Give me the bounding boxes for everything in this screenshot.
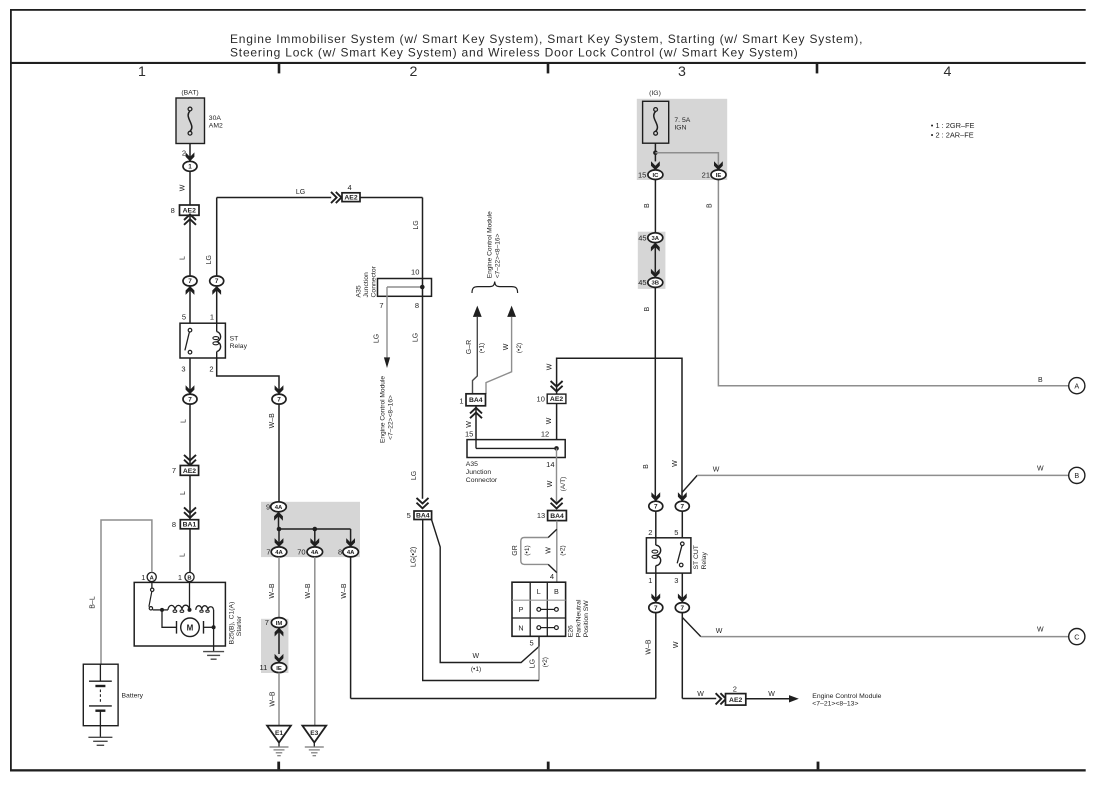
svg-text:1: 1	[141, 573, 145, 582]
svg-text:W: W	[1037, 627, 1044, 634]
svg-text:7. 5A: 7. 5A	[674, 117, 690, 124]
svg-text:B: B	[554, 587, 559, 596]
svg-text:G–R: G–R	[466, 340, 473, 354]
svg-text:4: 4	[944, 64, 952, 80]
svg-text:(IG): (IG)	[649, 90, 661, 97]
svg-text:(BAT): (BAT)	[181, 90, 198, 97]
svg-text:Engine Control Module: Engine Control Module	[812, 693, 881, 700]
svg-text:W: W	[697, 691, 704, 698]
svg-text:IE: IE	[276, 666, 282, 672]
svg-text:Engine Control Module: Engine Control Module	[486, 211, 493, 278]
svg-text:8: 8	[171, 206, 175, 215]
svg-text:E1: E1	[275, 730, 283, 737]
svg-text:Engine Control Module: Engine Control Module	[380, 376, 387, 443]
svg-text:3: 3	[678, 64, 686, 80]
svg-text:IC: IC	[652, 173, 659, 179]
svg-text:8: 8	[415, 301, 419, 310]
svg-text:B25(B), C1(A): B25(B), C1(A)	[229, 602, 236, 645]
svg-text:2: 2	[733, 684, 737, 693]
svg-text:5: 5	[182, 313, 186, 322]
svg-text:W: W	[546, 363, 553, 370]
svg-text:A: A	[1074, 382, 1079, 391]
svg-text:4A: 4A	[347, 550, 355, 556]
svg-text:W: W	[472, 653, 479, 660]
svg-text:1: 1	[459, 396, 463, 405]
svg-text:5: 5	[674, 528, 678, 537]
svg-text:1: 1	[138, 64, 146, 80]
svg-text:A35: A35	[355, 285, 362, 297]
svg-text:7: 7	[654, 605, 658, 612]
svg-text:AE2: AE2	[183, 468, 196, 475]
svg-text:4A: 4A	[311, 550, 319, 556]
svg-text:7: 7	[188, 278, 192, 285]
svg-text:• 1 : 2GR–FE: • 1 : 2GR–FE	[931, 121, 975, 130]
svg-text:<7–21><8–13>: <7–21><8–13>	[812, 701, 858, 708]
svg-text:2: 2	[209, 364, 213, 373]
svg-text:(•2): (•2)	[542, 657, 549, 667]
svg-text:GR: GR	[512, 545, 519, 556]
svg-text:W: W	[503, 343, 510, 350]
svg-text:Engine Immobiliser System (w/: Engine Immobiliser System (w/ Smart Key …	[230, 32, 863, 46]
svg-text:3A: 3A	[652, 236, 660, 242]
svg-text:W–B: W–B	[269, 583, 276, 599]
svg-text:IE: IE	[716, 173, 722, 179]
svg-text:LG: LG	[530, 659, 537, 668]
svg-text:W–B: W–B	[270, 691, 277, 707]
svg-text:ST CUT: ST CUT	[693, 545, 700, 569]
svg-text:LG: LG	[413, 220, 420, 229]
svg-text:4A: 4A	[275, 550, 283, 556]
svg-text:21: 21	[702, 171, 710, 180]
svg-text:8: 8	[338, 548, 342, 557]
svg-text:Connector: Connector	[466, 477, 498, 484]
svg-text:W: W	[768, 691, 775, 698]
svg-text:AE2: AE2	[550, 396, 563, 403]
svg-text:B: B	[644, 203, 651, 208]
svg-text:7: 7	[266, 548, 270, 557]
svg-text:2: 2	[648, 528, 652, 537]
svg-text:W–B: W–B	[269, 413, 276, 429]
svg-text:12: 12	[541, 430, 549, 439]
svg-text:LG: LG	[206, 255, 213, 264]
svg-text:2: 2	[182, 148, 186, 157]
svg-text:(•1): (•1)	[524, 545, 531, 555]
svg-text:7: 7	[172, 466, 176, 475]
svg-text:W: W	[1037, 465, 1044, 472]
svg-text:W: W	[546, 417, 553, 424]
svg-text:B: B	[1074, 471, 1079, 480]
svg-text:3: 3	[674, 576, 678, 585]
svg-text:P: P	[519, 605, 524, 614]
svg-text:B: B	[1038, 377, 1043, 384]
svg-text:W: W	[713, 466, 720, 473]
svg-text:LG(•2): LG(•2)	[411, 547, 418, 567]
svg-text:W: W	[716, 628, 723, 635]
svg-text:45: 45	[638, 233, 646, 242]
svg-text:B: B	[644, 307, 651, 312]
svg-text:W: W	[545, 547, 552, 554]
svg-text:N: N	[518, 623, 523, 632]
svg-text:(A/T): (A/T)	[560, 477, 567, 492]
svg-text:AE2: AE2	[344, 195, 357, 202]
svg-text:7: 7	[681, 605, 685, 612]
svg-text:7: 7	[215, 278, 219, 285]
svg-text:E26: E26	[567, 625, 574, 637]
svg-text:1: 1	[210, 313, 214, 322]
svg-text:Connector: Connector	[370, 265, 377, 297]
svg-text:W–B: W–B	[645, 639, 652, 655]
svg-text:1: 1	[178, 573, 182, 582]
svg-text:B: B	[643, 464, 650, 469]
svg-text:IGN: IGN	[674, 125, 686, 132]
svg-text:W–B: W–B	[341, 583, 348, 599]
svg-text:70: 70	[297, 548, 305, 557]
svg-text:1: 1	[188, 164, 192, 171]
svg-text:A35: A35	[466, 461, 478, 468]
svg-text:M: M	[187, 623, 194, 632]
svg-text:13: 13	[537, 511, 545, 520]
svg-text:Junction: Junction	[466, 469, 492, 476]
svg-text:7: 7	[277, 396, 281, 403]
svg-text:LG: LG	[411, 471, 418, 480]
svg-text:11: 11	[260, 663, 268, 672]
svg-text:LG: LG	[413, 333, 420, 342]
svg-text:AM2: AM2	[209, 123, 223, 130]
svg-text:W: W	[672, 460, 679, 467]
svg-text:AE2: AE2	[183, 208, 196, 215]
svg-text:W–B: W–B	[305, 583, 312, 599]
svg-text:5: 5	[530, 638, 534, 647]
svg-text:Battery: Battery	[122, 693, 144, 700]
svg-text:B: B	[187, 575, 191, 581]
svg-text:45: 45	[638, 278, 646, 287]
svg-text:Position SW: Position SW	[583, 600, 590, 638]
svg-text:• 2 : 2AR–FE: • 2 : 2AR–FE	[931, 131, 974, 140]
svg-text:W: W	[466, 421, 473, 428]
svg-text:7: 7	[379, 301, 383, 310]
svg-text:E3: E3	[310, 730, 318, 737]
svg-text:(•1): (•1)	[471, 666, 481, 673]
svg-text:L: L	[537, 587, 541, 596]
svg-text:3: 3	[181, 364, 185, 373]
svg-text:10: 10	[537, 395, 545, 404]
svg-text:IM: IM	[276, 621, 283, 627]
svg-text:5: 5	[407, 511, 411, 520]
svg-text:1: 1	[648, 576, 652, 585]
svg-text:ST: ST	[230, 335, 239, 342]
svg-text:15: 15	[638, 171, 646, 180]
svg-text:Park/Neutral: Park/Neutral	[575, 599, 582, 637]
svg-text:2: 2	[410, 64, 418, 80]
svg-text:8: 8	[172, 520, 176, 529]
svg-text:B–L: B–L	[89, 596, 96, 609]
svg-text:L: L	[180, 419, 187, 423]
svg-text:W: W	[673, 641, 680, 648]
svg-text:7: 7	[681, 503, 685, 510]
svg-text:BA4: BA4	[416, 513, 430, 520]
svg-text:30A: 30A	[209, 115, 222, 122]
svg-text:7: 7	[654, 503, 658, 510]
svg-text:BA4: BA4	[469, 397, 483, 404]
svg-text:Steering Lock (w/ Smart Key Sy: Steering Lock (w/ Smart Key System) and …	[230, 45, 799, 59]
svg-text:(•2): (•2)	[516, 343, 523, 353]
svg-text:14: 14	[546, 460, 554, 469]
svg-text:L: L	[179, 553, 186, 557]
svg-text:<7–22><8–16>: <7–22><8–16>	[495, 233, 502, 278]
svg-text:4A: 4A	[275, 505, 283, 511]
svg-text:AE2: AE2	[729, 697, 742, 704]
svg-text:B: B	[707, 203, 714, 208]
svg-text:L: L	[180, 256, 187, 260]
svg-text:3B: 3B	[652, 281, 660, 287]
svg-text:<7–22><8–16>: <7–22><8–16>	[388, 395, 395, 440]
svg-text:LG: LG	[296, 189, 305, 196]
svg-text:LG: LG	[373, 334, 380, 343]
svg-text:BA1: BA1	[183, 522, 197, 529]
svg-text:L: L	[180, 491, 187, 495]
svg-text:4: 4	[550, 572, 554, 581]
svg-text:7: 7	[188, 396, 192, 403]
svg-text:Relay: Relay	[230, 343, 248, 350]
svg-text:7: 7	[265, 618, 269, 627]
svg-text:15: 15	[465, 430, 473, 439]
svg-text:Junction: Junction	[363, 272, 370, 298]
svg-text:Relay: Relay	[701, 552, 708, 570]
svg-text:(•1): (•1)	[478, 343, 485, 353]
svg-text:4: 4	[348, 183, 352, 192]
svg-text:W: W	[180, 184, 187, 191]
svg-text:10: 10	[411, 268, 419, 277]
svg-text:Starter: Starter	[236, 615, 243, 636]
svg-text:C: C	[1074, 632, 1079, 641]
svg-text:BA4: BA4	[550, 513, 564, 520]
svg-text:(•2): (•2)	[559, 545, 566, 555]
svg-text:9: 9	[266, 502, 270, 511]
svg-text:W: W	[547, 480, 554, 487]
